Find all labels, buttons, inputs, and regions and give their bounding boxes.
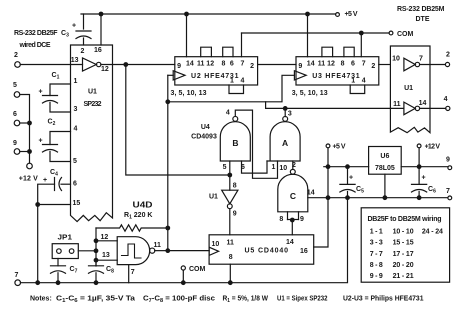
svg-text:+: + (43, 177, 47, 184)
svg-text:20 - 20: 20 - 20 (393, 262, 414, 269)
svg-text:+: + (72, 23, 76, 30)
svg-text:15: 15 (73, 200, 81, 207)
svg-text:10 - 10: 10 - 10 (393, 228, 414, 235)
svg-text:U1: U1 (88, 89, 97, 96)
svg-text:U3 HFE4731: U3 HFE4731 (312, 73, 360, 80)
svg-text:5: 5 (13, 82, 17, 89)
svg-text:+5 V: +5 V (345, 11, 358, 18)
svg-text:16: 16 (94, 47, 102, 54)
svg-text:7: 7 (241, 60, 245, 67)
svg-text:4: 4 (444, 96, 448, 103)
svg-text:17 - 17: 17 - 17 (393, 251, 414, 258)
svg-text:12: 12 (101, 234, 109, 241)
svg-text:COM: COM (397, 31, 414, 38)
svg-text:RS-232 DB25F: RS-232 DB25F (14, 30, 58, 37)
svg-text:11: 11 (318, 60, 326, 67)
svg-text:14: 14 (286, 239, 294, 246)
svg-text:9: 9 (300, 216, 304, 223)
svg-text:8: 8 (221, 60, 225, 67)
svg-text:10: 10 (212, 241, 220, 248)
svg-text:B: B (232, 138, 238, 148)
svg-text:14: 14 (186, 60, 194, 67)
svg-text:78L05: 78L05 (375, 165, 395, 172)
svg-text:1: 1 (271, 164, 275, 171)
svg-text:+: + (422, 175, 426, 182)
svg-text:9: 9 (13, 140, 17, 147)
svg-text:U6: U6 (380, 153, 389, 160)
svg-text:13: 13 (71, 57, 79, 64)
svg-text:2: 2 (250, 63, 254, 70)
svg-text:COM: COM (189, 266, 206, 273)
svg-text:JP1: JP1 (58, 235, 73, 242)
svg-text:12: 12 (101, 66, 109, 73)
svg-text:6: 6 (230, 60, 234, 67)
svg-text:3: 3 (74, 106, 78, 113)
svg-text:2: 2 (14, 52, 18, 59)
svg-text:21 - 21: 21 - 21 (393, 273, 414, 280)
svg-text:11: 11 (393, 101, 401, 108)
svg-text:1: 1 (74, 78, 78, 85)
svg-text:DB25F to DB25M wiring: DB25F to DB25M wiring (368, 216, 442, 223)
svg-text:6: 6 (351, 60, 355, 67)
svg-text:+12 V: +12 V (425, 144, 441, 151)
svg-text:U4D: U4D (133, 200, 153, 210)
svg-text:U5 CD4040: U5 CD4040 (245, 248, 289, 255)
svg-text:4: 4 (362, 77, 366, 84)
svg-text:7 - 7: 7 - 7 (370, 251, 383, 258)
svg-text:3: 3 (288, 111, 292, 118)
svg-text:+12 V: +12 V (19, 176, 38, 183)
svg-text:8: 8 (341, 60, 345, 67)
svg-text:4: 4 (226, 110, 230, 117)
svg-text:12: 12 (327, 60, 335, 67)
svg-text:7: 7 (419, 56, 423, 63)
svg-text:14: 14 (419, 100, 427, 107)
svg-text:+: + (39, 89, 43, 96)
svg-text:RS-232 DB25M: RS-232 DB25M (397, 6, 445, 13)
svg-text:11: 11 (227, 239, 235, 246)
svg-text:7: 7 (131, 269, 135, 276)
svg-text:6: 6 (73, 181, 77, 188)
svg-text:2: 2 (292, 162, 296, 169)
svg-text:U2-U3 = Philips HFE4731: U2-U3 = Philips HFE4731 (343, 296, 424, 303)
svg-text:SP232: SP232 (84, 101, 102, 108)
svg-text:10: 10 (392, 56, 400, 63)
svg-text:CD4093: CD4093 (191, 134, 217, 141)
svg-text:24 - 24: 24 - 24 (422, 228, 443, 235)
svg-text:4: 4 (241, 77, 245, 84)
svg-text:9: 9 (298, 63, 302, 70)
svg-text:13: 13 (102, 252, 110, 259)
svg-text:7: 7 (362, 60, 366, 67)
svg-text:7: 7 (14, 272, 18, 279)
svg-text:11: 11 (154, 242, 162, 249)
svg-text:5: 5 (223, 164, 227, 171)
svg-text:16: 16 (300, 248, 308, 255)
svg-text:9: 9 (446, 157, 450, 164)
svg-text:11: 11 (197, 60, 205, 67)
svg-text:14: 14 (307, 190, 315, 197)
svg-text:8: 8 (279, 216, 283, 223)
svg-text:12: 12 (206, 60, 214, 67)
svg-text:+5 V: +5 V (333, 144, 346, 151)
svg-text:3 - 3: 3 - 3 (370, 240, 383, 247)
svg-text:1 - 1: 1 - 1 (370, 228, 383, 235)
svg-text:6: 6 (241, 164, 245, 171)
svg-text:2: 2 (371, 63, 375, 70)
svg-text:15 - 15: 15 - 15 (393, 240, 414, 247)
svg-text:8: 8 (233, 183, 237, 190)
svg-text:Notes:: Notes: (30, 296, 52, 303)
svg-text:2: 2 (81, 48, 85, 55)
svg-text:9: 9 (233, 211, 237, 218)
svg-text:2: 2 (446, 52, 450, 59)
svg-text:3, 5, 10, 13: 3, 5, 10, 13 (171, 90, 207, 97)
svg-text:C: C (290, 191, 296, 201)
svg-text:wired DCE: wired DCE (19, 42, 51, 49)
svg-text:8: 8 (229, 254, 233, 261)
svg-text:+: + (39, 138, 43, 145)
svg-text:U2 HFE4731: U2 HFE4731 (191, 73, 239, 80)
svg-text:9: 9 (177, 63, 181, 70)
svg-text:5: 5 (73, 158, 77, 165)
svg-text:9 - 9: 9 - 9 (370, 273, 383, 280)
svg-text:4: 4 (74, 126, 78, 133)
svg-text:U4: U4 (201, 124, 210, 131)
svg-text:14: 14 (307, 60, 315, 67)
svg-text:6: 6 (13, 111, 17, 118)
svg-text:8 - 8: 8 - 8 (370, 262, 383, 269)
svg-text:+: + (349, 175, 353, 182)
svg-text:10: 10 (279, 165, 287, 172)
svg-text:DTE: DTE (416, 16, 430, 23)
svg-text:7: 7 (446, 188, 450, 195)
svg-text:3, 5, 10, 13: 3, 5, 10, 13 (292, 90, 328, 97)
svg-text:U1 = Sipex SP232: U1 = Sipex SP232 (277, 296, 328, 303)
svg-text:U1: U1 (209, 194, 218, 201)
svg-text:A: A (282, 138, 288, 148)
svg-text:U1: U1 (404, 85, 413, 92)
